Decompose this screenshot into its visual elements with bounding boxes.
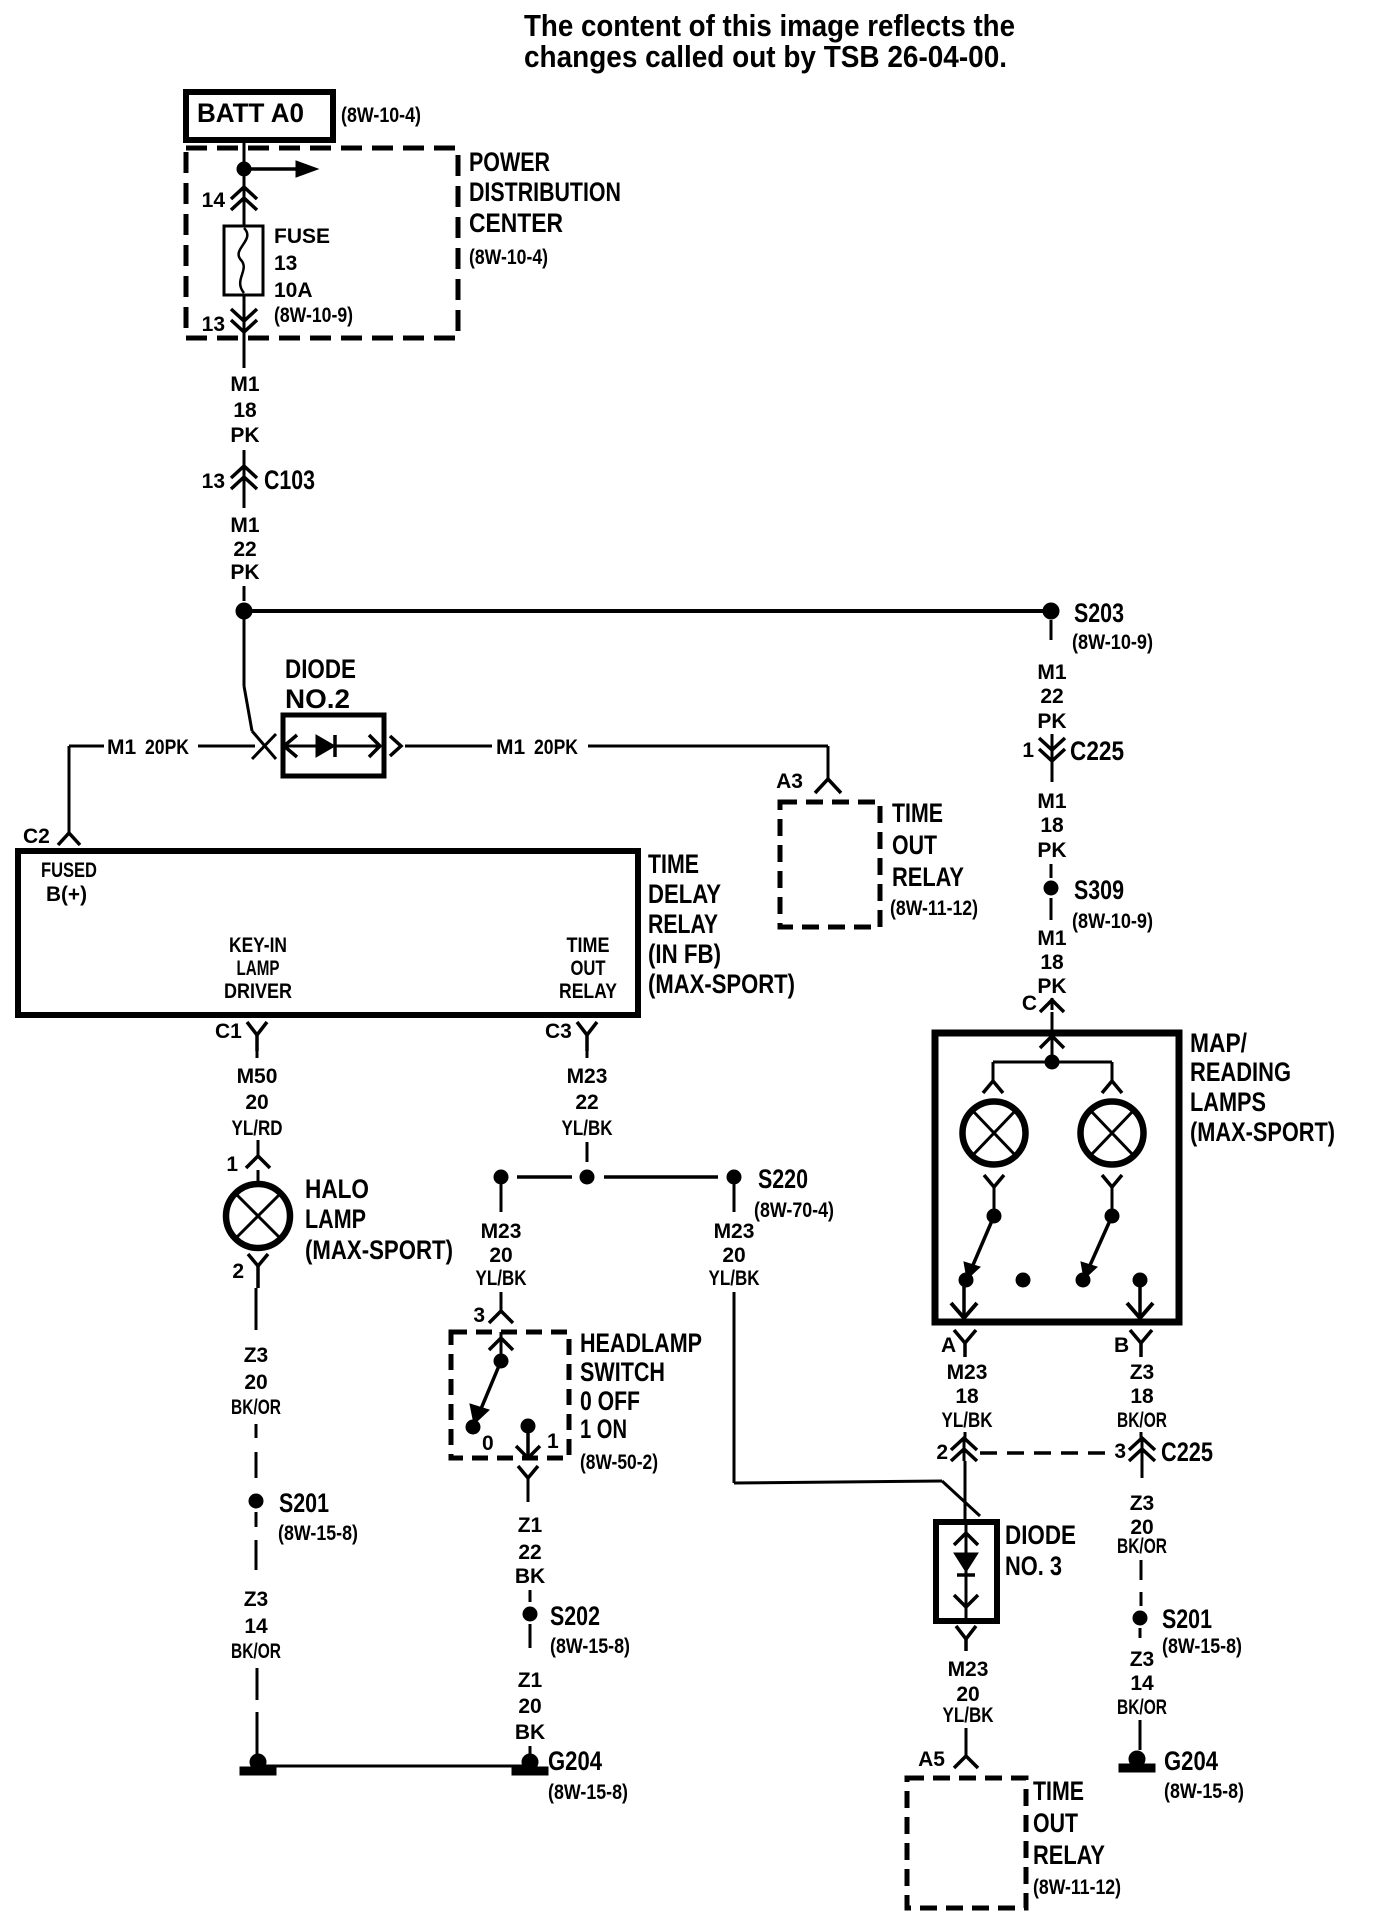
svg-text:Z3: Z3 [1130,1648,1155,1671]
svg-text:FUSED: FUSED [41,859,97,882]
svg-text:A3: A3 [776,770,803,793]
svg-text:NO.2: NO.2 [285,684,350,714]
svg-text:(8W-15-8): (8W-15-8) [550,1635,630,1658]
svg-text:KEY-IN: KEY-IN [229,934,287,957]
svg-text:M1: M1 [230,373,259,396]
svg-text:10A: 10A [274,279,313,302]
svg-text:BK/OR: BK/OR [1117,1535,1167,1558]
svg-text:(8W-15-8): (8W-15-8) [278,1522,358,1545]
svg-text:RELAY: RELAY [648,909,718,939]
svg-text:M1: M1 [230,514,259,537]
svg-text:BATT A0: BATT A0 [197,98,304,128]
svg-text:PK: PK [1037,839,1066,862]
svg-text:PK: PK [1037,975,1066,998]
svg-text:BK: BK [515,1721,545,1744]
svg-text:DISTRIBUTION: DISTRIBUTION [469,177,621,207]
svg-text:22: 22 [518,1541,541,1564]
svg-text:3: 3 [1114,1440,1126,1463]
svg-text:OUT: OUT [571,957,606,980]
svg-text:C225: C225 [1070,736,1124,766]
svg-text:18: 18 [1040,951,1064,974]
svg-text:M23: M23 [948,1658,989,1681]
svg-text:OUT: OUT [892,830,937,860]
svg-text:(8W-10-4): (8W-10-4) [341,104,421,127]
svg-text:20PK: 20PK [534,736,578,759]
svg-text:S201: S201 [1162,1604,1212,1634]
svg-text:M23: M23 [481,1220,522,1243]
svg-text:22: 22 [575,1091,598,1114]
svg-text:RELAY: RELAY [559,980,617,1003]
svg-text:Z3: Z3 [1130,1492,1155,1515]
svg-text:13: 13 [202,313,225,336]
svg-text:B(+): B(+) [46,883,87,906]
svg-text:A5: A5 [918,1748,945,1771]
svg-text:TIME: TIME [567,934,610,957]
svg-text:YL/BK: YL/BK [562,1117,613,1140]
svg-text:20: 20 [518,1695,541,1718]
svg-text:20: 20 [245,1091,268,1114]
svg-text:22: 22 [233,538,256,561]
svg-text:S201: S201 [279,1488,329,1518]
svg-text:YL/RD: YL/RD [232,1117,283,1140]
svg-text:C225: C225 [1161,1437,1213,1467]
svg-text:(MAX-SPORT): (MAX-SPORT) [1190,1117,1335,1147]
svg-text:CENTER: CENTER [469,208,563,238]
svg-text:(MAX-SPORT): (MAX-SPORT) [305,1235,453,1265]
svg-text:0 OFF: 0 OFF [580,1386,640,1416]
svg-text:(8W-15-8): (8W-15-8) [548,1781,628,1804]
svg-text:1: 1 [226,1153,238,1176]
svg-text:BK: BK [515,1565,545,1588]
svg-text:S202: S202 [550,1601,600,1631]
svg-text:RELAY: RELAY [1033,1840,1105,1870]
svg-text:YL/BK: YL/BK [943,1704,994,1727]
svg-text:DRIVER: DRIVER [224,980,292,1003]
svg-text:YL/BK: YL/BK [709,1267,760,1290]
svg-text:13: 13 [274,252,297,275]
svg-text:M1: M1 [1037,661,1066,684]
svg-text:BK/OR: BK/OR [1117,1696,1167,1719]
svg-text:2: 2 [232,1260,244,1283]
svg-text:BK/OR: BK/OR [231,1396,281,1419]
svg-text:(8W-11-12): (8W-11-12) [890,897,978,920]
svg-text:M50: M50 [237,1065,278,1088]
svg-text:(IN FB): (IN FB) [648,939,721,969]
svg-text:PK: PK [230,424,259,447]
svg-text:Z3: Z3 [1130,1361,1155,1384]
svg-text:(8W-15-8): (8W-15-8) [1162,1635,1242,1658]
svg-text:22: 22 [1040,685,1063,708]
svg-text:Z3: Z3 [244,1344,269,1367]
svg-text:S309: S309 [1074,875,1124,905]
svg-text:0: 0 [482,1432,494,1455]
svg-text:(8W-10-9): (8W-10-9) [1072,910,1153,933]
svg-text:M1: M1 [1037,927,1066,950]
svg-text:(8W-10-9): (8W-10-9) [274,304,353,327]
svg-text:G204: G204 [548,1746,602,1776]
svg-text:TIME: TIME [892,798,943,828]
svg-text:14: 14 [1130,1672,1154,1695]
svg-text:The content of this image refl: The content of this image reflects the [524,8,1015,43]
svg-text:1: 1 [547,1430,559,1453]
svg-text:TIME: TIME [1033,1776,1084,1806]
svg-text:2: 2 [936,1441,948,1464]
svg-text:LAMPS: LAMPS [1190,1087,1266,1117]
svg-text:1 ON: 1 ON [580,1414,627,1444]
svg-text:20PK: 20PK [145,736,189,759]
svg-text:PK: PK [1037,710,1066,733]
svg-text:changes called out by TSB 26-0: changes called out by TSB 26-04-00. [524,39,1007,74]
svg-text:20: 20 [489,1244,512,1267]
svg-text:C2: C2 [23,825,50,848]
svg-text:Z1: Z1 [518,1669,543,1692]
svg-text:(8W-11-12): (8W-11-12) [1033,1876,1121,1899]
svg-text:S203: S203 [1074,598,1124,628]
svg-text:(8W-15-8): (8W-15-8) [1164,1780,1244,1803]
svg-text:READING: READING [1190,1057,1291,1087]
svg-text:BK/OR: BK/OR [1117,1409,1167,1432]
svg-text:(MAX-SPORT): (MAX-SPORT) [648,969,795,999]
svg-text:Z1: Z1 [518,1514,543,1537]
svg-text:DIODE: DIODE [285,654,356,684]
svg-text:Z3: Z3 [244,1588,269,1611]
svg-text:C3: C3 [545,1020,572,1043]
svg-text:18: 18 [1040,814,1064,837]
svg-text:LAMP: LAMP [305,1204,366,1234]
svg-text:LAMP: LAMP [237,957,280,980]
svg-text:A: A [941,1334,956,1357]
svg-text:3: 3 [473,1304,485,1327]
svg-text:M1: M1 [496,736,525,759]
svg-text:YL/BK: YL/BK [942,1409,993,1432]
svg-text:MAP/: MAP/ [1190,1028,1247,1058]
svg-text:(8W-10-4): (8W-10-4) [469,246,548,269]
svg-text:20: 20 [244,1371,267,1394]
svg-text:HALO: HALO [305,1174,369,1204]
svg-text:DELAY: DELAY [648,879,721,909]
svg-text:G204: G204 [1164,1746,1218,1776]
svg-text:S220: S220 [758,1164,808,1194]
svg-text:TIME: TIME [648,849,699,879]
svg-text:DIODE: DIODE [1005,1520,1076,1550]
svg-text:M23: M23 [714,1220,755,1243]
svg-text:RELAY: RELAY [892,862,964,892]
svg-text:SWITCH: SWITCH [580,1357,665,1387]
svg-text:M1: M1 [1037,790,1066,813]
svg-text:20: 20 [722,1244,745,1267]
svg-text:C: C [1022,992,1037,1015]
svg-text:M23: M23 [947,1361,988,1384]
svg-text:M23: M23 [567,1065,608,1088]
svg-text:YL/BK: YL/BK [476,1267,527,1290]
svg-text:(8W-50-2): (8W-50-2) [580,1451,658,1474]
svg-text:1: 1 [1022,739,1034,762]
svg-text:OUT: OUT [1033,1808,1078,1838]
svg-text:BK/OR: BK/OR [231,1640,281,1663]
svg-text:FUSE: FUSE [274,225,330,248]
svg-text:POWER: POWER [469,147,550,177]
svg-text:14: 14 [244,1615,268,1638]
svg-text:B: B [1114,1334,1129,1357]
svg-text:C1: C1 [215,1020,242,1043]
svg-text:PK: PK [230,561,259,584]
svg-text:18: 18 [955,1385,979,1408]
svg-text:(8W-70-4): (8W-70-4) [754,1199,834,1222]
svg-text:M1: M1 [107,736,136,759]
svg-text:20: 20 [956,1683,979,1706]
svg-text:18: 18 [1130,1385,1154,1408]
svg-text:C103: C103 [264,465,315,495]
svg-text:13: 13 [202,470,225,493]
svg-text:(8W-10-9): (8W-10-9) [1072,631,1153,654]
svg-text:14: 14 [202,189,226,212]
svg-text:18: 18 [233,399,257,422]
svg-text:HEADLAMP: HEADLAMP [580,1328,702,1358]
svg-text:NO. 3: NO. 3 [1005,1551,1062,1581]
